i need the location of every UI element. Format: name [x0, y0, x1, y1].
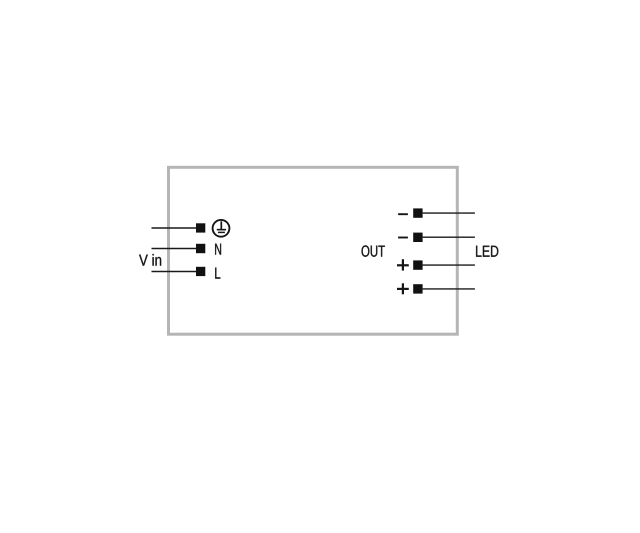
driver enclosure box	[169, 167, 458, 334]
polarity plus 1	[397, 259, 409, 270]
polarity plus 2	[397, 283, 409, 294]
wire mains N input	[152, 248, 197, 250]
polarity minus 1	[398, 213, 408, 215]
wire LED plus 1 output	[423, 264, 475, 266]
polarity minus 2	[398, 237, 408, 239]
protective earth symbol	[213, 220, 230, 237]
terminal LED plus 2	[413, 284, 422, 293]
terminal PE (earth)	[196, 223, 205, 232]
terminal N	[196, 244, 205, 253]
label V in	[139, 254, 161, 266]
wire LED minus 2 output	[423, 236, 475, 238]
terminal LED minus 1	[413, 208, 422, 217]
wire LED minus 1 output	[423, 212, 475, 214]
wire mains L input	[152, 271, 197, 273]
terminal LED plus 1	[413, 260, 422, 269]
label OUT	[362, 245, 385, 256]
label L	[215, 268, 220, 279]
label N	[215, 244, 221, 255]
terminal LED minus 2	[413, 233, 422, 242]
label LED	[476, 246, 498, 257]
wire mains earth (PE) input	[152, 227, 197, 229]
terminal L	[196, 267, 205, 276]
wire LED plus 2 output	[423, 288, 475, 290]
